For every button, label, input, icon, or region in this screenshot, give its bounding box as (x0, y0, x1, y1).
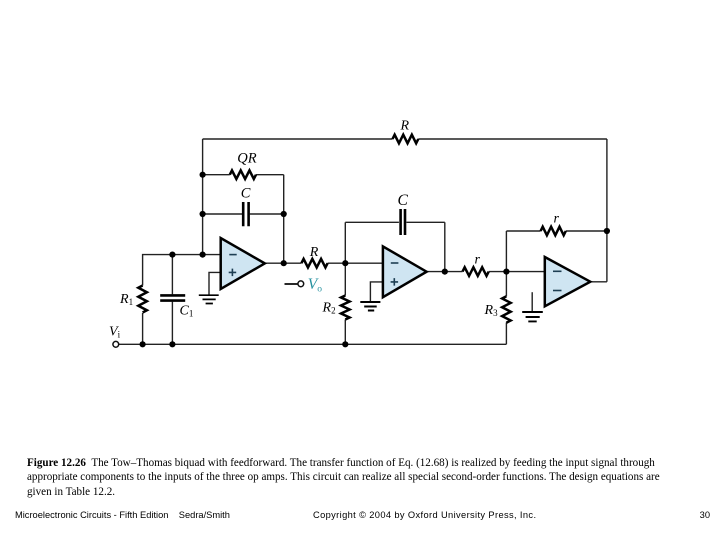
ground G2 (U2 non-inverting input) (360, 302, 380, 311)
input terminal Vi (113, 341, 119, 347)
svg-text:C: C (241, 185, 251, 201)
capacitor C plates (U1 feedback) (243, 202, 248, 226)
junction node C1/bottom rail (169, 341, 175, 347)
wire R2 top lead (344, 263, 346, 295)
svg-text:r: r (554, 212, 560, 227)
wire C feedback row left lead (U1) (203, 213, 242, 215)
junction node C left (U1 feedback) (200, 211, 206, 217)
svg-text:QR: QR (237, 151, 256, 167)
svg-text:Vi: Vi (109, 324, 121, 339)
junction node QR left (200, 172, 206, 178)
ground G1 (U1 non-inverting input) (199, 295, 219, 303)
resistor R series (U1 to U2) (301, 259, 327, 268)
output terminal Vo (298, 281, 304, 287)
wire r feedback row left lead (506, 230, 540, 232)
capacitor C plates (U2 feedback) (401, 209, 405, 235)
wire C1 top lead (171, 255, 173, 295)
wire Vo output stub (285, 283, 298, 285)
op-amp U3 (545, 257, 591, 306)
wire R1 bottom lead (142, 313, 144, 344)
svg-text:R3: R3 (484, 303, 499, 318)
wire top feedback R row right segment (418, 138, 607, 140)
wire r feedback row right lead (566, 230, 607, 232)
resistor R1 (138, 286, 147, 313)
wire right vertical (top R row down to U3 output) (606, 139, 608, 282)
wire ground G3 stem (531, 292, 533, 311)
svg-text:C: C (398, 192, 409, 209)
resistor R2 (341, 296, 350, 320)
junction node2 U2 inverting input (342, 260, 348, 266)
svg-text:Vo: Vo (308, 276, 322, 295)
resistor r series (U2 to U3) (463, 267, 489, 276)
svg-text:r: r (475, 252, 481, 267)
wire top feedback R row left segment (203, 138, 393, 140)
wire R1 top lead and input node row to op-amp U1 (143, 255, 221, 286)
svg-text:C1: C1 (180, 304, 194, 319)
wire R2 bottom lead (344, 320, 346, 345)
svg-text:R2: R2 (322, 301, 336, 316)
wire U2 plus input to ground G2 (370, 282, 383, 301)
wire C2 feedback row right lead (406, 221, 444, 223)
op-amp U2 (383, 246, 427, 297)
junction node U2 output (442, 269, 448, 275)
junction node C1 top/input row (169, 252, 175, 258)
wire node2 vertical up to C2 feedback row (344, 222, 346, 263)
ground G3 (U3 non-inverting input) (522, 312, 543, 321)
wire series R to U2 inverting input (328, 262, 383, 264)
wire bottom rail from Vi to R3 (119, 343, 507, 345)
wire QR row right lead (256, 174, 284, 176)
resistor QR (230, 170, 256, 179)
wire R3 bottom lead (505, 323, 507, 345)
junction node U1 output (281, 260, 287, 266)
wire feedback right vertical (QR row down to U1 output) (283, 175, 285, 264)
wire feedback left vertical (top R row to U1 inverting input) (202, 139, 204, 255)
capacitor C1 plates (160, 295, 185, 300)
svg-text:R1: R1 (119, 292, 133, 307)
junction node R1/bottom rail (140, 341, 146, 347)
wire node3 vertical up to r feedback row (505, 231, 507, 272)
resistor r feedback (around U3) (541, 227, 566, 236)
wire U3 output to right vertical (590, 281, 607, 283)
junction node R2/bottom rail (342, 341, 348, 347)
op-amp U1 (221, 238, 265, 289)
wire QR row left lead (203, 174, 230, 176)
wire U2 output to series r (427, 271, 463, 273)
wire C1 bottom lead (171, 302, 173, 345)
svg-text:R: R (400, 119, 410, 134)
resistor R top feedback (393, 135, 419, 144)
junction node3 U3 inverting input (503, 269, 509, 275)
wire R3 top lead (505, 272, 507, 297)
wire U1 output to series R (265, 262, 302, 264)
wire C feedback row right lead (U1) (250, 213, 284, 215)
wire C2 feedback row left lead (345, 221, 399, 223)
wire series r to U3 inverting input (489, 271, 545, 273)
junction node C right (U1 feedback) (281, 211, 287, 217)
junction node feedback-left/input row (200, 252, 206, 258)
svg-text:R: R (309, 245, 319, 260)
wire C2 right vertical down to U2 output (444, 222, 446, 271)
junction node r feedback right (604, 228, 610, 234)
resistor R3 (502, 296, 511, 322)
wire U1 plus input to ground G1 (209, 272, 221, 294)
